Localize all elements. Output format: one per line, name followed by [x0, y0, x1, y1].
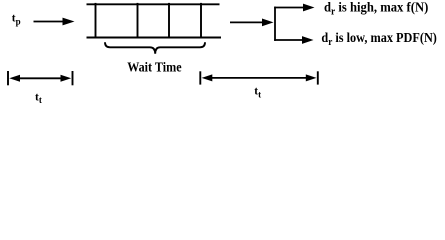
svg-text:tt: tt — [35, 91, 42, 105]
fork vertical — [274, 7, 276, 41]
queue top rail — [87, 3, 220, 5]
left t_t measure: double arrow — [9, 75, 71, 82]
svg-text:Wait Time: Wait Time — [127, 59, 181, 74]
left t_t measure: left tick — [7, 71, 9, 85]
fork bottom branch arrow — [274, 36, 313, 44]
queue divider 3 — [168, 3, 170, 38]
arrow from queue to fork — [230, 19, 274, 27]
queue bottom rail — [87, 37, 222, 39]
svg-text:tt: tt — [254, 86, 261, 100]
queue divider 4 — [200, 3, 202, 38]
brace under queue — [105, 42, 205, 54]
svg-text:dr is high, max f(N): dr is high, max f(N) — [324, 0, 429, 17]
fork top branch arrow — [274, 4, 314, 12]
arrow from t_p to queue — [34, 18, 75, 26]
right t_t measure: left tick — [199, 71, 201, 84]
right t_t measure: double arrow — [202, 74, 317, 81]
right t_t measure: right tick — [317, 71, 319, 84]
svg-text:tp: tp — [12, 13, 21, 27]
svg-text:dr is low, max PDF(N): dr is low, max PDF(N) — [321, 31, 437, 48]
left t_t measure: right tick — [72, 71, 74, 85]
queue divider 2 — [137, 3, 139, 38]
queue divider 1 — [95, 3, 97, 38]
